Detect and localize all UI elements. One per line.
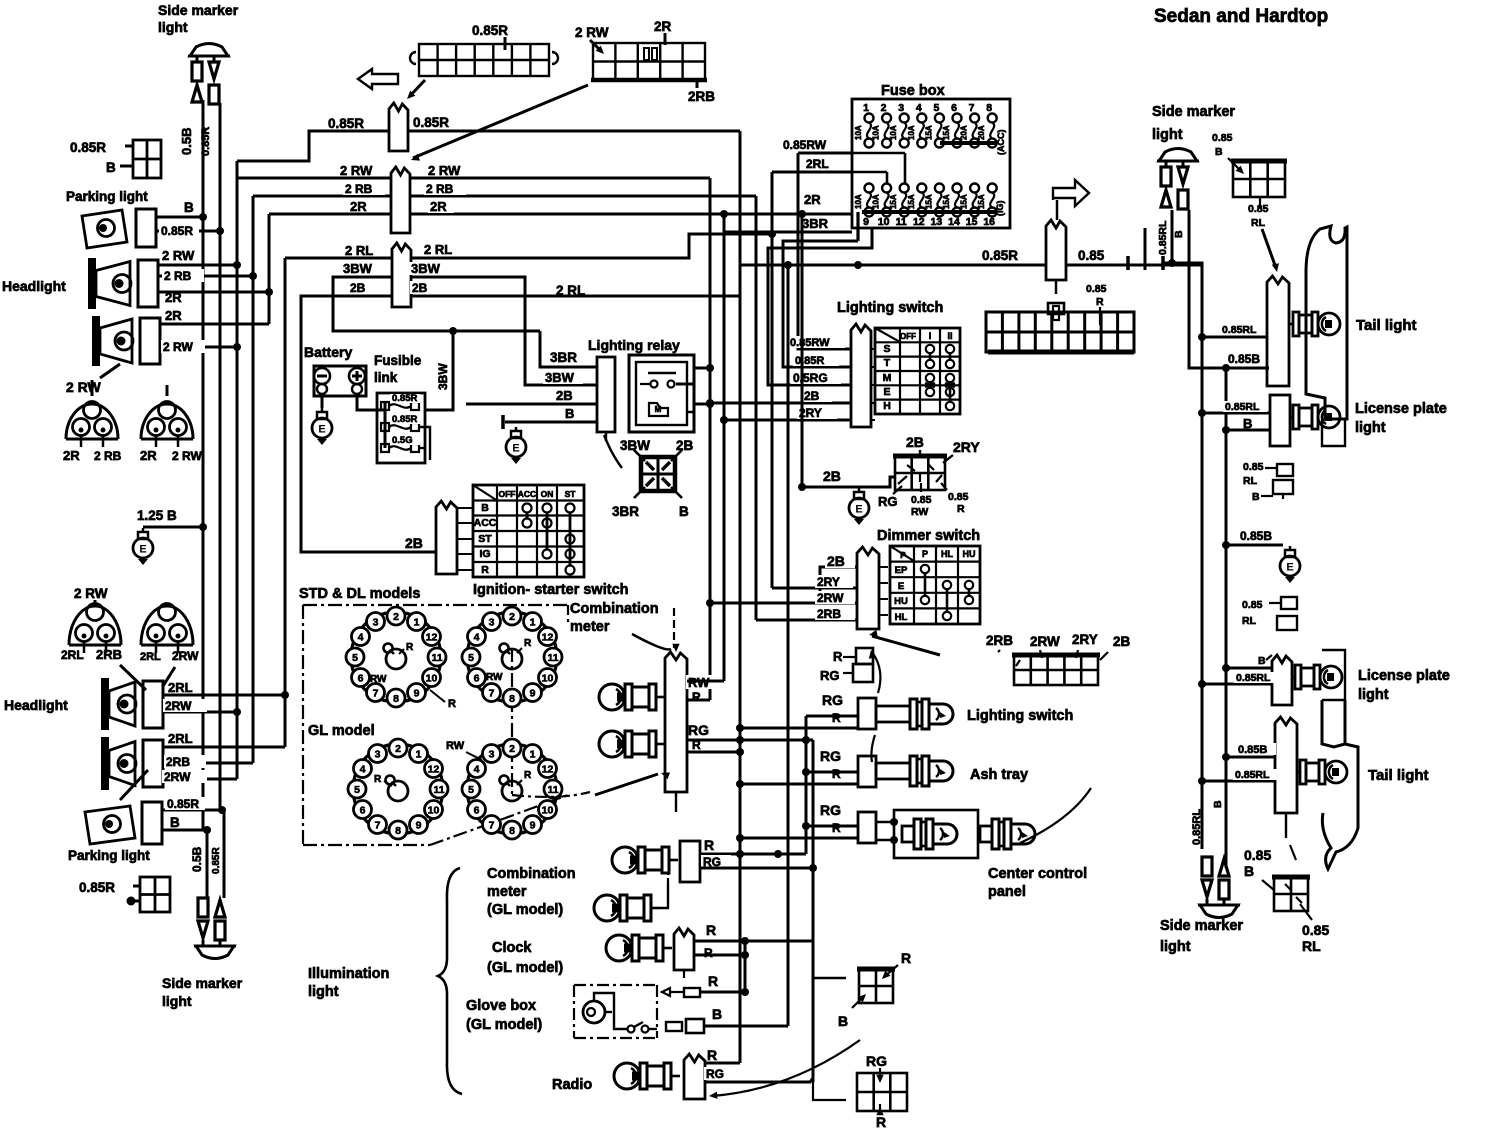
ignition connector xyxy=(436,501,457,574)
wire 2RW headlight4 xyxy=(163,778,237,781)
label 0.5RG ls xyxy=(791,371,841,384)
svg-text:2RY: 2RY xyxy=(1072,632,1098,647)
svg-text:E: E xyxy=(318,424,325,436)
wire 2B lighting switch xyxy=(710,402,851,405)
svg-text:Radio: Radio xyxy=(552,1077,592,1093)
svg-text:15A: 15A xyxy=(889,194,898,209)
comb meter GL bulb 2 xyxy=(594,895,660,921)
ground dimmer xyxy=(849,488,869,525)
vertical v745 xyxy=(744,941,747,992)
wire to R/B connector xyxy=(813,977,846,980)
svg-text:meter: meter xyxy=(570,619,610,635)
svg-text:3: 3 xyxy=(489,617,495,629)
svg-text:RG: RG xyxy=(706,1067,724,1081)
glove box R wire xyxy=(662,988,670,996)
svg-text:0.85R: 0.85R xyxy=(795,355,824,367)
wire 2R right xyxy=(410,213,852,216)
svg-text:2R: 2R xyxy=(165,290,182,305)
svg-text:EP: EP xyxy=(895,565,908,576)
wire R comb xyxy=(687,699,710,702)
svg-text:2RL: 2RL xyxy=(168,680,193,695)
label RG comb GL xyxy=(701,855,731,868)
svg-text:light: light xyxy=(1358,687,1389,703)
lighting switch table xyxy=(875,328,960,414)
wire 2RW headlight1 xyxy=(158,264,237,267)
svg-text:ST: ST xyxy=(478,533,492,545)
wire 0.85RL license2 xyxy=(1202,683,1272,686)
wire RG center xyxy=(806,825,858,828)
connector X 3BW/2B xyxy=(641,457,675,491)
svg-text:4: 4 xyxy=(474,632,480,644)
svg-text:R: R xyxy=(832,821,841,835)
svg-text:2RB: 2RB xyxy=(817,607,841,621)
svg-text:9: 9 xyxy=(863,216,869,228)
bus vertical v269 xyxy=(268,214,271,324)
svg-text:RG: RG xyxy=(866,1053,887,1069)
svg-text:R: R xyxy=(708,973,718,989)
ground battery-left xyxy=(133,528,153,565)
svg-text:RG: RG xyxy=(878,494,898,509)
wire 2R left xyxy=(269,213,391,216)
svg-text:E: E xyxy=(139,544,146,556)
connector 2 (2RW/2RB/2R) xyxy=(391,167,410,233)
wire 0.85RL license1 xyxy=(1202,412,1270,415)
svg-text:B: B xyxy=(712,1006,722,1022)
bus vertical b5 x772 xyxy=(771,172,774,588)
side marker bottom right xyxy=(1198,857,1240,918)
connector 0.85R bottom-left xyxy=(140,877,170,912)
lighting switch bulb xyxy=(876,699,953,729)
svg-text:0.85R: 0.85R xyxy=(200,127,212,156)
svg-text:2R: 2R xyxy=(654,19,672,34)
svg-text:20A: 20A xyxy=(960,125,969,140)
svg-text:Parking light: Parking light xyxy=(68,848,150,863)
wire 2B ground branch xyxy=(802,477,895,487)
wire R radio xyxy=(705,1062,740,1065)
svg-text:light: light xyxy=(308,984,339,1000)
connector 0.85/B right xyxy=(1231,161,1287,197)
svg-text:11: 11 xyxy=(431,652,442,664)
fuse box internal feeds xyxy=(904,153,907,183)
svg-text:2 RW: 2 RW xyxy=(428,163,461,178)
svg-text:HU: HU xyxy=(894,596,908,607)
svg-text:0.85R: 0.85R xyxy=(472,23,508,38)
svg-text:7: 7 xyxy=(489,688,495,700)
wire B relay xyxy=(505,421,597,424)
wire 0.85 continuation xyxy=(1066,264,1202,267)
svg-text:M: M xyxy=(655,405,662,414)
svg-text:B: B xyxy=(481,502,489,514)
bus vertical b4 x756 xyxy=(755,196,758,620)
svg-text:2R: 2R xyxy=(350,199,367,214)
svg-text:2 RL: 2 RL xyxy=(424,242,452,257)
arrow GL to comb connector xyxy=(595,774,658,795)
svg-text:B: B xyxy=(184,200,194,215)
svg-text:0.85B: 0.85B xyxy=(1240,529,1272,543)
wire 3BW right xyxy=(411,277,525,331)
wire relay coil output xyxy=(694,403,710,406)
license plate housing 1 xyxy=(1322,420,1345,446)
wire R clock xyxy=(694,940,813,943)
svg-text:4: 4 xyxy=(474,764,480,776)
svg-text:2: 2 xyxy=(881,102,887,114)
tail light 2 connector xyxy=(1275,717,1297,813)
svg-text:2 RW: 2 RW xyxy=(162,248,195,263)
label RG radio xyxy=(704,1067,734,1080)
connector 0.85R/B top-left xyxy=(133,140,161,178)
svg-text:2R: 2R xyxy=(430,199,447,214)
svg-text:12: 12 xyxy=(426,632,438,644)
license plate 2 bulb xyxy=(1292,665,1342,689)
svg-text:E: E xyxy=(898,581,904,592)
svg-text:R: R xyxy=(524,770,532,781)
svg-text:2 RW: 2 RW xyxy=(172,449,202,463)
wire B license2 xyxy=(1226,667,1272,670)
svg-text:2B: 2B xyxy=(412,281,428,295)
svg-text:R: R xyxy=(448,698,456,710)
svg-text:Battery: Battery xyxy=(304,344,352,360)
license plate 2 connector xyxy=(1272,655,1292,705)
svg-text:R: R xyxy=(692,738,701,752)
svg-text:S: S xyxy=(883,343,890,355)
connector strip right xyxy=(986,312,1134,352)
svg-text:0.85: 0.85 xyxy=(911,494,932,506)
svg-text:3BW: 3BW xyxy=(343,261,373,276)
svg-text:1: 1 xyxy=(863,102,869,114)
dash-dot box models xyxy=(303,604,568,606)
tail light 2 bulb xyxy=(1297,760,1347,784)
fuse bus bar top row xyxy=(940,141,996,145)
connector 0.85RL bottom right xyxy=(1272,877,1310,911)
svg-text:Headlight: Headlight xyxy=(4,697,68,713)
svg-text:2R: 2R xyxy=(165,308,182,323)
svg-text:Clock: Clock xyxy=(492,940,532,956)
svg-text:2B: 2B xyxy=(405,535,423,551)
svg-text:RG: RG xyxy=(820,802,841,818)
bus vertical b1 x710 xyxy=(709,178,712,700)
svg-text:R: R xyxy=(832,711,841,725)
svg-text:Glove box: Glove box xyxy=(466,998,536,1014)
side marker right wires xyxy=(1171,210,1174,263)
connector R/B xyxy=(857,969,895,1003)
wire to RG/R connector xyxy=(813,1082,846,1100)
wire 3BR relay xyxy=(540,331,597,367)
svg-text:E: E xyxy=(512,443,519,455)
svg-text:2B: 2B xyxy=(1113,634,1131,649)
svg-text:B: B xyxy=(1243,416,1252,431)
svg-text:0.85RL: 0.85RL xyxy=(1235,769,1270,781)
connector 3 (2RL/3BW/2B) xyxy=(392,243,411,307)
svg-text:10: 10 xyxy=(428,805,440,817)
svg-text:HL: HL xyxy=(895,612,908,623)
svg-text:(GL model): (GL model) xyxy=(487,902,563,918)
wire R comb GL xyxy=(700,853,806,856)
svg-text:6: 6 xyxy=(951,102,957,114)
svg-text:R: R xyxy=(957,503,965,515)
side marker light right xyxy=(1157,149,1199,210)
radio connector xyxy=(684,1054,705,1099)
wire 2RY dimmer xyxy=(772,587,857,590)
svg-text:3: 3 xyxy=(373,617,379,629)
svg-text:3BR: 3BR xyxy=(802,216,829,231)
svg-text:Sedan and Hardtop: Sedan and Hardtop xyxy=(1154,6,1328,27)
svg-text:0.85R: 0.85R xyxy=(79,880,115,895)
wire R lighting bulb xyxy=(740,727,858,730)
wire B license1 xyxy=(1226,429,1270,432)
svg-text:2 RB: 2 RB xyxy=(94,449,122,463)
svg-text:2 RW: 2 RW xyxy=(340,163,373,178)
wire fusebox to lighting switch 1 xyxy=(783,241,858,367)
hollow arrow left xyxy=(358,69,398,89)
leader arrow to headlight4 connector xyxy=(120,770,148,800)
svg-text:0.85B: 0.85B xyxy=(1238,744,1267,756)
svg-text:B: B xyxy=(679,504,689,519)
connector 0.85R mid xyxy=(1046,220,1066,280)
leader to comb connector xyxy=(632,634,671,649)
svg-text:16: 16 xyxy=(983,216,995,228)
svg-text:2RY: 2RY xyxy=(817,575,840,589)
svg-text:2B: 2B xyxy=(906,434,924,450)
wire 0.5B vertical left xyxy=(202,100,205,830)
svg-text:RW: RW xyxy=(911,506,928,518)
svg-text:2: 2 xyxy=(393,611,399,623)
svg-text:RG: RG xyxy=(820,748,841,764)
headlight 1 xyxy=(88,258,158,309)
wire right column horizontal xyxy=(1163,263,1202,849)
wire RG lighting bulb xyxy=(806,715,858,718)
svg-text:(GL model): (GL model) xyxy=(487,960,563,976)
svg-text:8: 8 xyxy=(509,825,515,837)
svg-text:6: 6 xyxy=(358,673,364,685)
label RW comb xyxy=(686,675,714,689)
relay connector xyxy=(597,357,615,432)
svg-text:3: 3 xyxy=(489,749,495,761)
wire RG ash xyxy=(806,771,858,774)
svg-text:Lighting switch: Lighting switch xyxy=(967,708,1073,724)
svg-text:9: 9 xyxy=(416,820,422,832)
wire R ash xyxy=(740,783,858,786)
wire 2RW dimmer xyxy=(710,602,857,605)
tail light 1 bulb xyxy=(1289,312,1340,336)
svg-text:B: B xyxy=(1212,800,1224,808)
svg-text:6: 6 xyxy=(474,673,480,685)
svg-text:Center control: Center control xyxy=(988,866,1087,882)
svg-text:B: B xyxy=(170,815,180,830)
svg-text:B: B xyxy=(1244,863,1254,879)
round connector GL left xyxy=(348,739,448,839)
svg-text:2R: 2R xyxy=(140,448,157,463)
svg-text:0.85: 0.85 xyxy=(1078,248,1105,263)
svg-text:10A: 10A xyxy=(854,194,863,209)
lighting switch connector xyxy=(851,324,871,427)
svg-text:11: 11 xyxy=(547,652,558,664)
lighting switch bulb connector xyxy=(858,698,876,729)
svg-text:Fusible: Fusible xyxy=(374,353,422,368)
wire 0.85R parking light xyxy=(156,230,220,233)
svg-text:GL model: GL model xyxy=(308,723,375,739)
wire 0.85RW into fusebox xyxy=(798,152,852,155)
svg-text:Tail light: Tail light xyxy=(1368,767,1429,784)
bulb cluster 2RL/2RB xyxy=(69,604,121,654)
headlight 2 xyxy=(92,316,160,366)
wire 0.85RL tail1 xyxy=(1202,336,1267,339)
svg-text:0.85: 0.85 xyxy=(1243,461,1264,473)
bus vertical b3 x740 xyxy=(739,131,742,1063)
svg-text:E: E xyxy=(1286,562,1293,574)
wire 2RB headlight4 xyxy=(163,762,253,765)
svg-text:2 RB: 2 RB xyxy=(164,269,192,283)
svg-text:B: B xyxy=(1215,146,1223,158)
svg-text:3BW: 3BW xyxy=(545,370,575,385)
svg-text:2RL: 2RL xyxy=(806,157,829,171)
svg-text:2 RL: 2 RL xyxy=(556,283,585,298)
svg-text:Headlight: Headlight xyxy=(2,278,66,294)
svg-text:2RB: 2RB xyxy=(96,647,122,662)
battery xyxy=(314,366,366,396)
wire 2R headlight2 xyxy=(160,323,269,326)
svg-text:2RL: 2RL xyxy=(140,651,161,663)
svg-text:0.85: 0.85 xyxy=(1244,847,1271,863)
svg-text:7: 7 xyxy=(375,820,381,832)
svg-text:3BR: 3BR xyxy=(550,350,577,365)
svg-text:8: 8 xyxy=(393,693,399,705)
svg-text:RW: RW xyxy=(486,672,503,683)
svg-text:Side marker: Side marker xyxy=(162,975,243,991)
parking light connector xyxy=(136,209,156,247)
arrow to dimmer connector xyxy=(872,636,940,655)
hollow arrow right xyxy=(1053,180,1089,206)
round connector GL right xyxy=(462,739,562,839)
svg-text:ST: ST xyxy=(565,489,577,499)
svg-text:M: M xyxy=(883,372,892,384)
curved leader center xyxy=(1020,788,1091,843)
center control bulb 1 xyxy=(902,819,957,849)
svg-text:3: 3 xyxy=(375,749,381,761)
svg-text:12: 12 xyxy=(542,632,554,644)
svg-text:2 RW: 2 RW xyxy=(575,25,609,40)
svg-text:3: 3 xyxy=(898,102,904,114)
svg-text:10: 10 xyxy=(426,673,438,685)
svg-text:RL: RL xyxy=(1302,938,1321,954)
wire 2B left xyxy=(301,296,436,552)
svg-text:5: 5 xyxy=(468,652,474,664)
relay output wire xyxy=(687,412,694,430)
ground battery xyxy=(312,408,332,445)
svg-text:7: 7 xyxy=(489,820,495,832)
svg-text:10A: 10A xyxy=(889,125,898,140)
svg-text:0.5B: 0.5B xyxy=(190,846,204,872)
svg-text:8: 8 xyxy=(509,693,515,705)
svg-text:14: 14 xyxy=(948,216,960,228)
svg-text:2RL: 2RL xyxy=(61,648,84,662)
dash leader xyxy=(512,792,590,797)
svg-text:0.85R: 0.85R xyxy=(211,847,222,874)
fuse box outline xyxy=(852,99,1010,228)
connector RG/R xyxy=(857,1073,907,1111)
combination meter connector xyxy=(665,652,687,792)
svg-text:2 RB: 2 RB xyxy=(345,182,373,196)
svg-text:Dimmer switch: Dimmer switch xyxy=(877,528,980,544)
license plate 2 housing xyxy=(1322,650,1345,700)
svg-text:0.85RL: 0.85RL xyxy=(1225,401,1260,413)
svg-text:B: B xyxy=(1173,230,1185,238)
svg-text:9: 9 xyxy=(530,688,536,700)
wire 2RB left xyxy=(253,195,391,198)
clock connector xyxy=(674,928,694,970)
connector strip 2RB/2RW/2RY/2B xyxy=(1012,655,1100,685)
svg-text:RG: RG xyxy=(822,692,843,708)
svg-text:Combination: Combination xyxy=(487,866,576,882)
svg-text:0.85R: 0.85R xyxy=(328,116,364,131)
svg-text:0.85R: 0.85R xyxy=(392,414,417,425)
connector R/RG small xyxy=(856,648,873,664)
svg-text:light: light xyxy=(1152,127,1183,143)
svg-text:P: P xyxy=(900,550,906,560)
svg-text:E: E xyxy=(855,504,862,516)
wire 2RW right xyxy=(410,177,710,180)
svg-text:2B: 2B xyxy=(804,389,820,403)
round connector STD left xyxy=(346,607,446,707)
center control panel box xyxy=(876,821,894,823)
svg-text:12: 12 xyxy=(913,216,925,228)
wire RG comb GL xyxy=(700,867,813,870)
wire 0.85R parking2 xyxy=(162,809,222,812)
svg-text:1: 1 xyxy=(416,749,422,761)
svg-text:RW: RW xyxy=(446,740,465,752)
svg-text:Ash tray: Ash tray xyxy=(970,767,1028,783)
svg-text:2: 2 xyxy=(395,743,401,755)
svg-text:2RW: 2RW xyxy=(1030,634,1060,649)
clock bulb xyxy=(606,935,672,961)
license plate 1 connector xyxy=(1270,395,1290,446)
wire 0.85R left run xyxy=(237,131,389,161)
wire 2R into fusebox xyxy=(802,192,828,206)
wire 2RW headlight3 xyxy=(163,711,237,714)
battery positive wire xyxy=(357,394,385,410)
comb meter bulb 2 xyxy=(599,731,665,757)
svg-text:6: 6 xyxy=(360,805,366,817)
svg-text:2RB: 2RB xyxy=(166,755,190,769)
svg-text:Lighting relay: Lighting relay xyxy=(588,337,680,353)
arrow strip1 to connector1 xyxy=(409,80,425,97)
center control connector xyxy=(858,812,876,843)
svg-text:2 RB: 2 RB xyxy=(426,182,454,196)
svg-text:STD & DL models: STD & DL models xyxy=(299,586,420,602)
svg-text:ON: ON xyxy=(541,489,554,499)
bulb cluster 2RL/2RW xyxy=(141,604,193,654)
svg-text:5: 5 xyxy=(354,784,360,796)
svg-text:meter: meter xyxy=(487,884,527,900)
svg-text:0.85R: 0.85R xyxy=(70,140,106,155)
svg-text:2B: 2B xyxy=(676,438,694,453)
wire R clock2 xyxy=(694,954,745,957)
parking light 2 connector xyxy=(142,802,162,844)
svg-text:Illumination: Illumination xyxy=(308,966,389,982)
wire 3BW left xyxy=(333,277,540,331)
svg-text:3BR: 3BR xyxy=(612,504,639,519)
svg-text:0.85RW: 0.85RW xyxy=(790,337,830,349)
svg-text:5: 5 xyxy=(468,784,474,796)
svg-text:0.85: 0.85 xyxy=(948,491,969,503)
headlight 4 xyxy=(101,737,163,790)
svg-text:License plate: License plate xyxy=(1358,668,1450,684)
svg-text:11: 11 xyxy=(896,216,907,228)
vertical B right xyxy=(1225,368,1228,868)
ground right xyxy=(1280,546,1300,583)
svg-text:3BW: 3BW xyxy=(411,261,441,276)
bus vertical v285 xyxy=(284,258,287,747)
label R clock2 xyxy=(702,946,718,959)
